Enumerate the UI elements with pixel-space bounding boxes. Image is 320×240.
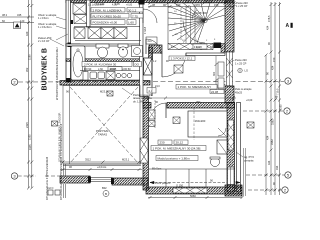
kitchen fridge — [83, 72, 88, 81]
note zwis — [38, 34, 68, 43]
washer crossed box under shower — [74, 15, 87, 24]
kitchen label — [82, 62, 142, 67]
tick marks right chain — [270, 3, 282, 192]
svg-text:352: 352 — [196, 100, 201, 104]
bottom room ceiling line — [149, 168, 235, 170]
arrows on module line — [150, 181, 240, 183]
bathroom top texts — [88, 4, 133, 7]
bottom wall window — [173, 188, 207, 193]
stairs dim lines vertical — [186, 6, 195, 43]
right chain dim numbers — [266, 25, 283, 145]
bath-kitchen divider wall — [66, 59, 148, 62]
note puste top right — [236, 1, 248, 8]
right wall lower window — [228, 120, 234, 150]
bathroom label row2 — [91, 14, 143, 19]
bedroom label row upper — [158, 140, 188, 145]
terrace label — [96, 129, 110, 137]
svg-text:1165: 1165 — [279, 104, 283, 110]
bottom wall — [146, 187, 242, 194]
svg-text:20,12: 20,12 — [176, 141, 184, 145]
svg-text:3512: 3512 — [85, 158, 91, 162]
svg-text:424: 424 — [266, 25, 270, 30]
svg-text:710,5: 710,5 — [276, 88, 280, 95]
terrace bottom edge double line — [63, 164, 141, 166]
kitchen east wall lower — [140, 53, 144, 97]
bathroom door arc — [143, 9, 157, 23]
kitchen area sub-box — [108, 67, 122, 71]
svg-text:ok. 1,5%: ok. 1,5% — [133, 99, 144, 103]
svg-text:POSADZKA +0,00: POSADZKA +0,00 — [93, 21, 118, 25]
svg-text:1,7: 1,7 — [171, 45, 175, 49]
bidet — [118, 44, 128, 57]
bottom dims — [152, 167, 196, 198]
svg-text:120: 120 — [176, 3, 181, 7]
svg-text:1165: 1165 — [28, 144, 32, 150]
right wall door opening — [228, 167, 235, 185]
svg-text:748: 748 — [274, 95, 278, 100]
left note leaders — [50, 39, 64, 46]
terrace-bedroom divider wall — [143, 97, 149, 191]
note obud 2 — [38, 22, 66, 29]
svg-text:Z:60: Z:60 — [110, 68, 116, 71]
bathroom partition — [87, 0, 91, 27]
top chain numbers — [152, 0, 231, 7]
bedroom extra dim text — [155, 100, 223, 110]
svg-text:5060: 5060 — [190, 194, 196, 198]
bathroom east wall — [139, 0, 145, 53]
svg-text:150: 150 — [214, 3, 219, 7]
svg-text:DO: DO — [135, 63, 140, 67]
grid bubble 2 right — [243, 108, 290, 114]
right side leader lines — [230, 3, 243, 157]
kitchen sub text — [84, 68, 131, 71]
svg-text:424: 424 — [267, 160, 271, 165]
tick marks left chain — [27, 16, 33, 178]
terrace cross diagonals — [70, 87, 138, 163]
svg-text:PLYTKI GRES 30x30: PLYTKI GRES 30x30 — [93, 14, 122, 18]
right side leader lines 2 — [229, 60, 235, 89]
kitchen south wall — [60, 81, 150, 86]
svg-text:17x18=306: 17x18=306 — [194, 11, 207, 15]
svg-text:czerpnia: czerpnia — [244, 160, 254, 163]
bedroom shelf dashed line — [193, 108, 195, 141]
svg-text:1165: 1165 — [28, 134, 32, 140]
bathroom counter line — [74, 26, 140, 28]
right side note mid — [244, 99, 254, 163]
svg-text:M23,1: M23,1 — [100, 90, 108, 94]
svg-text:4,95: 4,95 — [115, 3, 120, 6]
terrace left edge continuation — [64, 164, 66, 198]
svg-text:434: 434 — [275, 165, 279, 170]
svg-text:M23,1: M23,1 — [122, 158, 130, 162]
dimension line top-left — [0, 17, 34, 23]
svg-text:424: 424 — [271, 65, 275, 70]
living room right boxes — [218, 62, 224, 88]
svg-text:Modul poziomu + 1,80m: Modul poziomu + 1,80m — [158, 157, 191, 161]
right wall window — [227, 52, 233, 86]
svg-text:1180: 1180 — [28, 54, 32, 60]
svg-text:L:60: L:60 — [98, 68, 103, 71]
tick marks bottom chains — [62, 161, 244, 200]
svg-text:+0,00: +0,00 — [126, 4, 133, 7]
hall dashed walk line — [151, 48, 153, 93]
modul label — [156, 156, 198, 161]
door arc kitchen — [146, 39, 161, 54]
svg-text:150: 150 — [272, 57, 276, 62]
bath-kitchen divider line — [66, 44, 141, 46]
terrace upper dim row — [66, 90, 108, 94]
svg-text:1 x 25 CP: 1 x 25 CP — [235, 62, 247, 66]
svg-text:1 POK. M. MIESZKALNY: 1 POK. M. MIESZKALNY — [178, 85, 212, 89]
landing wall piece right — [221, 44, 225, 54]
window dim bottom — [176, 179, 213, 188]
svg-text:TARAS: TARAS — [98, 133, 107, 137]
bedroom north wall — [167, 103, 235, 109]
corner washbasin — [132, 46, 143, 57]
left chain extra ticks — [27, 4, 33, 190]
bedroom label — [151, 146, 206, 151]
bottom-right corner block — [225, 185, 242, 196]
svg-text:DO:90: DO:90 — [84, 68, 92, 71]
svg-text:24,0: 24,0 — [155, 85, 160, 88]
svg-text:120: 120 — [208, 0, 213, 4]
top wall — [66, 0, 234, 3]
grid bubble 5 right bottom — [246, 172, 291, 178]
terrace door jambs — [88, 177, 114, 185]
svg-text:Puste 220: Puste 220 — [235, 58, 247, 62]
terrace outline — [63, 86, 140, 165]
svg-text:O +5cm poziom: O +5cm poziom — [152, 181, 170, 185]
svg-text:2x2 O: 2x2 O — [47, 187, 54, 190]
right wall upper lower piece — [225, 86, 234, 103]
grid bubble 3 left bottom — [11, 173, 61, 179]
svg-text:W BUDYNKU W ZABUDOWIE BLIZNIAC: W BUDYNKU W ZABUDOWIE BLIZNIACZEJ — [55, 47, 59, 100]
svg-text:160x200: 160x200 — [195, 119, 206, 123]
svg-text:345: 345 — [17, 13, 22, 17]
svg-text:5x18: 5x18 — [160, 0, 166, 4]
divider window — [140, 138, 148, 163]
terrace south wall — [60, 176, 90, 183]
hall vertical dim text — [143, 26, 147, 34]
bathroom label row1 — [91, 8, 143, 13]
dim text left vertical — [28, 54, 32, 140]
grid bubble 3 right — [285, 78, 291, 84]
svg-text:38 2: 38 2 — [2, 13, 8, 17]
basin bottom right — [210, 157, 220, 167]
upper room label — [169, 56, 195, 61]
upper room crossed box — [174, 65, 183, 73]
right outer dylatacja lines — [244, 148, 246, 196]
kitchen sink — [90, 72, 105, 79]
svg-text:230: 230 — [160, 141, 165, 145]
bedroom wall shelf boxes — [149, 110, 156, 127]
kitchen counter — [80, 71, 140, 81]
living room dim line vertical — [215, 56, 218, 92]
stairs landing pillar — [214, 43, 222, 49]
svg-text:17x18: 17x18 — [143, 26, 147, 34]
svg-text:1.1 LAZ.: 1.1 LAZ. — [96, 3, 105, 6]
svg-text:24,38: 24,38 — [211, 90, 218, 94]
bathtub — [71, 46, 85, 80]
svg-text:B: B — [105, 192, 107, 196]
left wall jog at bath — [66, 44, 80, 47]
svg-text:300: 300 — [213, 71, 216, 76]
dimension lines bottom terrace — [60, 162, 142, 170]
hall small box label — [146, 37, 157, 44]
dimension chain left x=28.5 — [29, 0, 32, 188]
svg-text:424: 424 — [266, 135, 270, 140]
svg-text:478,5: 478,5 — [267, 15, 271, 22]
svg-text:O 150: O 150 — [176, 184, 184, 188]
terrace door sill — [90, 178, 112, 182]
winder stairs — [168, 3, 225, 44]
dimension line top over stairs — [148, 3, 234, 7]
stairs landing text box — [193, 44, 207, 49]
svg-text:150: 150 — [185, 0, 190, 4]
svg-text:1 x 15+5cm: 1 x 15+5cm — [38, 25, 51, 29]
nightstand — [173, 117, 180, 124]
svg-text:1 x 25 CP: 1 x 25 CP — [236, 4, 248, 8]
svg-text:2425: 2425 — [25, 122, 29, 128]
wardrobe — [217, 140, 227, 154]
svg-text:3362: 3362 — [270, 139, 274, 145]
right chain more numbers — [267, 42, 276, 185]
left wall upper — [66, 0, 71, 44]
bathroom cabinets bottom line — [75, 40, 141, 42]
bed — [188, 111, 227, 137]
door arc bedroom — [151, 103, 166, 118]
svg-text:A: A — [286, 23, 290, 29]
svg-text:7,75: 7,75 — [132, 14, 138, 18]
top chain more numbers — [155, 0, 219, 7]
svg-text:429: 429 — [25, 31, 29, 36]
tick marks top chain — [149, 2, 236, 9]
section marker A right — [286, 23, 293, 29]
bedroom walk dash — [154, 100, 156, 128]
living room north wall stub — [149, 45, 162, 53]
bedroom dim line horizontal — [143, 97, 236, 100]
svg-text:+0,00: +0,00 — [246, 99, 253, 102]
right wall lower — [227, 103, 235, 193]
duct shaft — [144, 58, 153, 75]
shower crossed box top-left — [73, 4, 86, 15]
svg-text:2 POK. M. LAZIENKA: 2 POK. M. LAZIENKA — [93, 8, 122, 12]
svg-text:O: O — [239, 69, 241, 73]
symbol boxes bottom left — [47, 187, 60, 195]
landing label — [171, 45, 213, 49]
right wall outer layer — [237, 103, 241, 193]
stairs understair cabinets row — [168, 44, 213, 50]
right chain extra ticks — [265, 51, 282, 192]
svg-text:5x18: 5x18 — [172, 0, 178, 4]
top small texts bathroom — [96, 3, 120, 6]
svg-text:30 1,2: 30 1,2 — [128, 8, 137, 12]
svg-text:1 POK. M. MIESZKALNY 30 [24,38: 1 POK. M. MIESZKALNY 30 [24,38] — [153, 147, 201, 151]
dim text right vertical — [267, 15, 280, 170]
note puste mid right — [235, 58, 247, 66]
electrical box 2 — [247, 122, 254, 128]
grid line 2 dashed across plan — [18, 80, 284, 83]
svg-text:2 POK. M. KUCHNIA 30: 2 POK. M. KUCHNIA 30 — [84, 63, 117, 67]
svg-text:2,4: 2,4 — [196, 45, 200, 49]
bathroom label row3 — [91, 20, 136, 25]
right side phi circle note — [238, 68, 248, 72]
svg-text:SCIANA W 2 KOLEJN. INWENT. ZAG: SCIANA W 2 KOLEJN. INWENT. ZAGOSP. — [58, 112, 62, 162]
svg-text:89+5cm: 89+5cm — [152, 167, 161, 171]
kitchen oven crossed box — [106, 72, 115, 80]
note obud 1 — [38, 13, 66, 20]
terrace south wall right part — [112, 178, 148, 185]
svg-text:120: 120 — [20, 19, 25, 23]
hall south wall stub — [149, 47, 153, 60]
terrace dims — [69, 158, 130, 170]
partition right of shaft — [151, 53, 153, 96]
svg-text:1.3 POKOJ 12,1: 1.3 POKOJ 12,1 — [171, 57, 193, 61]
stair dim texts — [160, 0, 208, 15]
bottom room mullions — [166, 169, 206, 187]
living room dim numbers — [213, 65, 223, 76]
svg-text:LG: LG — [245, 69, 248, 73]
svg-text:BUDYNEK B: BUDYNEK B — [42, 48, 49, 91]
svg-text:B02: B02 — [102, 186, 107, 190]
note zwis right — [235, 87, 252, 95]
note poziom posadzki — [122, 88, 153, 103]
hall texts — [153, 60, 169, 88]
svg-text:2 x 16 CP: 2 x 16 CP — [38, 39, 50, 43]
bedroom north wall stub — [143, 103, 151, 109]
dimension lines bottom room — [148, 197, 242, 199]
door arc living room — [162, 53, 186, 77]
toilet — [96, 44, 109, 58]
svg-text:LOD:60: LOD:60 — [122, 68, 131, 71]
living room north wall thin — [186, 53, 225, 56]
svg-text:Zwis w atrapie: Zwis w atrapie — [235, 87, 252, 91]
stair tread numbers — [174, 11, 216, 42]
door jamb block left wall — [70, 20, 74, 24]
grid bubble 2 left — [11, 79, 17, 85]
B02 marker — [102, 186, 109, 197]
svg-text:45x25: 45x25 — [235, 91, 243, 95]
stairs up arrow — [180, 8, 182, 40]
top-left tiny numbers — [2, 13, 25, 23]
kitchen hob burners — [111, 73, 132, 77]
electrical box 3 — [107, 91, 113, 96]
washer crossed box row — [74, 28, 127, 39]
dashed module line bottom — [150, 182, 240, 184]
left wall lower (bath) — [66, 43, 71, 83]
left chain dim numbers — [25, 31, 32, 150]
dimension chain right verticals — [266, 2, 280, 195]
svg-text:1 x 15cm: 1 x 15cm — [38, 16, 49, 20]
electrical box 1 — [52, 121, 58, 126]
right wall upper solid — [225, 1, 234, 52]
svg-text:2470: 2470 — [194, 3, 200, 7]
living room label row — [147, 85, 225, 94]
svg-text:352: 352 — [25, 67, 29, 72]
svg-text:L:60: L:60 — [128, 21, 134, 25]
section marker A left — [14, 22, 21, 29]
grid bubble 2b right bottom — [248, 187, 288, 193]
